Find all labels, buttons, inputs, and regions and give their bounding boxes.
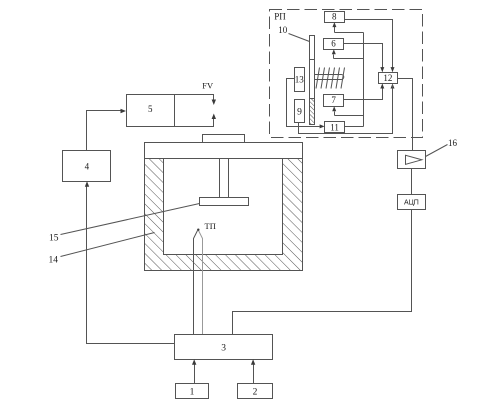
wire 1 to 3 (192, 359, 196, 383)
leader line 10 (289, 34, 310, 42)
block 7 (324, 95, 344, 107)
coil hatch block (315, 68, 345, 89)
svg-text:8: 8 (332, 12, 337, 22)
svg-text:16: 16 (448, 138, 458, 148)
thermocouple left wire (194, 231, 198, 335)
svg-text:7: 7 (331, 95, 336, 105)
wire 7 to 12 (344, 85, 383, 100)
svg-text:14: 14 (49, 256, 59, 266)
amplifier 16 (398, 151, 426, 169)
svg-text:15: 15 (49, 234, 59, 244)
arrowhead into 12 top right (391, 67, 395, 72)
dashed regulator box РП (270, 10, 423, 138)
wire 11 to bus (345, 126, 364, 128)
wire bus into 8 (332, 22, 363, 32)
wire bus into 7 (332, 106, 363, 115)
svg-text:13: 13 (295, 74, 305, 84)
wire 2 to 3 (251, 359, 255, 383)
block 2 (238, 384, 273, 399)
block 11 (325, 122, 345, 133)
wire 3 to 4 (85, 181, 175, 343)
furnace lid (145, 143, 303, 159)
svg-text:4: 4 (85, 161, 90, 171)
pedestal plate 15 (200, 198, 249, 206)
arrowhead into 11 left (320, 124, 325, 128)
leader line 14 (61, 233, 155, 257)
svg-text:5: 5 (148, 104, 153, 114)
gas line top with FV arrow down (175, 95, 217, 106)
wire 6 to 12 (344, 44, 383, 72)
block 8 (325, 12, 345, 23)
wire 12 to amplifier 16 (398, 79, 413, 151)
svg-text:11: 11 (330, 122, 339, 132)
svg-text:3: 3 (221, 344, 226, 354)
block 9 (295, 100, 305, 123)
furnace chimney box (203, 135, 245, 143)
arrowhead into 12 bottom left (380, 84, 384, 89)
arrowhead into 12 top left (380, 67, 384, 72)
gas line bottom with arrow up (175, 114, 217, 127)
block 4 (63, 151, 111, 182)
pedestal stem 15 (220, 159, 229, 199)
block 5 (127, 95, 175, 127)
svg-text:1: 1 (190, 388, 195, 398)
wire bus into 6 (332, 49, 364, 58)
leader line 15 (61, 204, 200, 235)
block 13 (295, 68, 305, 92)
svg-text:РП: РП (274, 12, 286, 22)
wire 13 loop to 11 (287, 79, 320, 127)
leader line 16 (426, 145, 448, 157)
block 1 (176, 384, 209, 399)
svg-text:12: 12 (383, 73, 392, 83)
svg-text:6: 6 (331, 39, 336, 49)
wire ADC to 3 (233, 210, 412, 335)
svg-text:2: 2 (253, 388, 258, 398)
svg-text:FV: FV (202, 80, 214, 90)
block 6 (324, 39, 344, 50)
block 12 (379, 73, 398, 84)
furnace hatched walls (145, 159, 303, 271)
svg-text:10: 10 (278, 25, 288, 35)
vertical bus from 11 (363, 33, 365, 127)
arrowhead into 12 bottom right (391, 84, 395, 89)
thermocouple tip dot (197, 229, 199, 231)
wire 4 to 5 (87, 109, 127, 151)
thermocouple right wire (199, 231, 203, 335)
wire 9 to 12 (299, 85, 393, 134)
svg-text:АЦП: АЦП (404, 200, 419, 207)
wire amplifier to ADC (411, 169, 413, 195)
block АЦП (398, 195, 426, 210)
svg-text:ТП: ТП (205, 221, 216, 231)
plunger bar 10 (310, 36, 315, 125)
block 3 (175, 335, 273, 360)
svg-text:9: 9 (297, 108, 302, 118)
wire 8 to 12 (345, 20, 393, 72)
